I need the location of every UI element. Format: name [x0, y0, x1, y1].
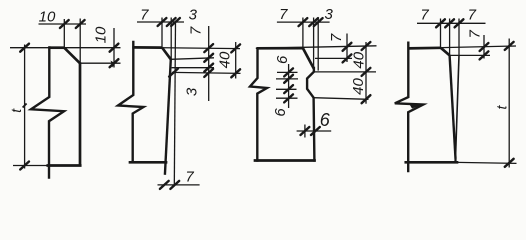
fig3 top dim arrow c [314, 18, 323, 26]
fig2 ext line chamfer bottom [171, 58, 214, 60]
fig3 ext line notch wall bottom left [276, 88, 297, 90]
fig1 top dim arrow left [60, 20, 69, 28]
fig2 top dim extension b [170, 18, 172, 60]
svg-text:6: 6 [272, 108, 289, 117]
fig4 t dim arrow top [505, 42, 514, 50]
fig4 top surface line with right extension [408, 46, 516, 48]
fig2 ext line step lower [172, 72, 241, 73]
fig3 top surface line with right extension [256, 46, 377, 49]
fig2 top surface line with right extension [132, 47, 240, 48]
fig4 top dim extension c [458, 19, 460, 56]
fig3 ext line notch bottom right [313, 98, 368, 100]
svg-text:7: 7 [140, 6, 149, 23]
fig4 ext line chamfer bottom [450, 54, 490, 56]
fig3 ext line notch bottom left [276, 97, 298, 99]
svg-text:7: 7 [279, 6, 288, 23]
fig2 top dimension line [137, 21, 184, 23]
fig2 bottom dimension line 7 [158, 184, 200, 186]
fig2 chamfer edge [162, 48, 171, 60]
fig4 top dim extension a [440, 19, 442, 48]
fig4 top dimension line [417, 22, 486, 24]
svg-text:10: 10 [93, 26, 110, 43]
fig3 ext line notch top left [277, 71, 298, 73]
fig2 inner dim arrow 2 [204, 54, 213, 62]
fig1 chamfer lower extension [80, 62, 121, 64]
fig3 dim 6 arrow 3 [284, 85, 293, 93]
fig2 top dim arrow a [158, 18, 167, 26]
fig4 dim 7 arrow top [480, 43, 489, 51]
fig3 top dimension line [277, 21, 330, 23]
svg-text:7: 7 [187, 26, 204, 35]
fig4 dim 7 arrow bottom [480, 51, 489, 59]
fig4 top dim arrow c [455, 19, 464, 27]
fig2 top dim extension a [161, 18, 163, 48]
svg-text:6: 6 [320, 110, 331, 130]
fig4 original edge line [456, 55, 460, 158]
fig3 notch depth extension [304, 125, 306, 138]
fig4 machined slanted edge [450, 55, 456, 158]
fig3 dim line 40 right [365, 42, 367, 104]
svg-text:3: 3 [183, 87, 200, 96]
fig2 outer dim arrow top [231, 44, 240, 52]
svg-text:7: 7 [467, 29, 484, 38]
fig1 chamfer edge 10x10 [64, 48, 80, 64]
fig2 arrow at edge on lower ext [169, 69, 178, 77]
fig1 top dim extension right [79, 19, 81, 64]
svg-text:7: 7 [328, 33, 345, 42]
fig4 top dim arrow a [436, 19, 445, 27]
svg-text:6: 6 [274, 55, 291, 64]
svg-text:40: 40 [350, 51, 367, 68]
fig2 inner dim arrow 3 [204, 64, 213, 72]
fig3 notch depth arrow left [301, 127, 310, 135]
fig1 bottom line [13, 165, 49, 167]
fig3 dim 6 arrow 1 [284, 68, 293, 76]
svg-text:3: 3 [189, 6, 198, 23]
fig3 bottom line [255, 159, 315, 162]
fig2 ext line step upper [172, 67, 214, 69]
fig3 ext line chamfer bottom right [315, 57, 352, 59]
fig4 t dim arrow bottom [505, 159, 514, 167]
fig4 bottom line [406, 161, 457, 164]
fig3 top dim extension c [317, 18, 319, 71]
fig3 top dim extension a [302, 18, 304, 49]
fig1 top dim arrow right [76, 20, 85, 28]
fig1 vert dim arrowhead blob [111, 61, 116, 68]
fig2 machined slanted edge [165, 59, 171, 175]
fig2 dim line right inner [208, 26, 210, 101]
fig3 dim 40 arrow top [362, 42, 371, 50]
svg-text:40: 40 [350, 78, 367, 95]
svg-text:40: 40 [216, 51, 233, 68]
fig4 edge stub to bottom [454, 158, 456, 162]
fig1 t dim tick mid [23, 104, 27, 108]
fig2 bottom dim arrow right [170, 181, 179, 189]
fig3 dim 6 arrow 2 [284, 75, 293, 83]
fig2 left edge with break zigzag [118, 42, 144, 162]
fig4 top dim extension b [449, 19, 451, 56]
fig3 ext line notch wall top left [276, 78, 298, 80]
fig2 dim line right outer 40 [235, 42, 237, 79]
fig4 left edge with break zigzag [395, 43, 424, 171]
fig1 left edge with break zigzag [31, 48, 64, 178]
fig3 dim 7 arrow bottom [343, 54, 352, 62]
fig1 top surface line with right extension [10, 47, 121, 49]
fig4 top dim arrow b [445, 19, 454, 27]
fig1 right edge [79, 62, 82, 165]
fig2 bottom line [130, 161, 166, 164]
svg-text:3: 3 [325, 6, 334, 23]
fig2 bottom dim arrow left [160, 181, 169, 189]
svg-text:7: 7 [420, 7, 429, 24]
svg-text:10: 10 [39, 9, 56, 26]
fig3 dim line 7 right [346, 34, 348, 63]
fig1 top dimension line 10 [39, 23, 87, 25]
fig1 vertical dimension line 10 [113, 28, 115, 68]
fig1 vert dim arrow bottom [110, 59, 119, 67]
fig3 left edge with break zigzag [250, 48, 267, 160]
fig2 inner dim arrow 1 [204, 44, 213, 52]
fig4 zigzag ink blob [409, 104, 423, 109]
fig3 dim 7 arrow top [343, 43, 352, 51]
fig3 right edge with notch [307, 68, 314, 161]
fig2 outer dim arrow bottom [231, 69, 240, 77]
fig4 thickness dimension line t [508, 39, 510, 168]
fig3 top dim arrow b [309, 18, 318, 26]
fig1 thickness dimension line t [24, 45, 26, 169]
fig2 inner dim arrow 4 [204, 69, 213, 77]
fig3 dim line 6 left [288, 64, 290, 108]
fig3 notch depth arrow right [311, 127, 320, 135]
fig3 dim 40 arrow bottom [362, 95, 371, 103]
fig3 top dim arrow a [299, 18, 308, 26]
fig1 t dim arrow bottom [20, 162, 29, 170]
fig3 ext line notch top right [314, 71, 376, 73]
fig2 original edge reference line [174, 22, 175, 187]
fig1 top dim extension left [63, 19, 65, 48]
fig1 t dim arrow top [20, 44, 29, 52]
fig3 notch depth dimension line 6 [297, 130, 332, 132]
fig3 top dim extension b [313, 18, 315, 69]
fig4 chamfer edge [441, 48, 450, 56]
fig2 top dim arrow b [167, 18, 176, 26]
svg-text:7: 7 [185, 168, 194, 185]
fig2 top dim arrow c [171, 18, 180, 26]
fig3 dim 40 arrow mid [362, 68, 371, 76]
fig3 dim 6 arrow 4 [284, 94, 293, 102]
fig3 chamfer edge [303, 48, 314, 69]
fig4 dim line 7 right [483, 35, 485, 59]
svg-text:7: 7 [468, 7, 477, 24]
fig1 vert dim arrow top [110, 44, 119, 52]
